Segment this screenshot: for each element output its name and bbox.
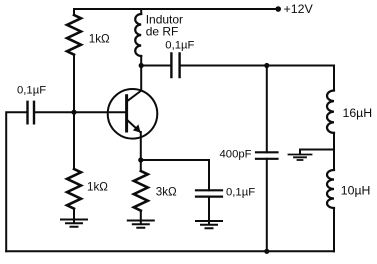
wire bottom rail [6, 250, 334, 252]
svg-text:400pF: 400pF [220, 148, 252, 160]
wire R1 bottom to base junction [73, 55, 75, 113]
capacitor C3 400pF [256, 152, 278, 159]
wire R2 bottom stub [73, 209, 75, 223]
wire 400pF branch lower [266, 159, 268, 252]
transistor Q1 emitter line [127, 120, 141, 133]
svg-text:0,1µF: 0,1µF [226, 186, 255, 198]
wire bypass cap to ground [208, 197, 210, 225]
node collector junction [139, 63, 144, 68]
svg-text:16µH: 16µH [343, 106, 373, 120]
transistor Q1 base bar [125, 96, 128, 131]
node emitter junction [138, 157, 143, 162]
svg-text:1kΩ: 1kΩ [89, 32, 110, 45]
wire emitter node to bypass branch [141, 159, 209, 161]
ground under R2 [61, 220, 87, 227]
ground under C4 [196, 221, 222, 228]
ground mid right [289, 155, 312, 161]
svg-text:1kΩ: 1kΩ [87, 181, 108, 194]
capacitor C2 0,1uF coupling [171, 54, 179, 78]
wire left branch top stub [73, 9, 75, 15]
wire right vertical top segment [333, 66, 335, 91]
capacitor C1 0,1uF input (left plate) [28, 102, 35, 124]
wire emitter vertical [140, 132, 142, 171]
node 400pF bottom junction [264, 249, 269, 254]
svg-text:0,1µF: 0,1µF [165, 40, 194, 52]
node 400pF top junction [264, 63, 269, 68]
svg-text:10µH: 10µH [341, 183, 371, 197]
wire right vertical bottom segment [333, 208, 335, 251]
wire bypass branch vertical [208, 160, 210, 190]
svg-text:de RF: de RF [146, 25, 179, 39]
wire coil bottom to collector [140, 56, 142, 91]
node +12V terminal dot [275, 6, 281, 12]
wire between coils [333, 133, 335, 170]
wire junction to coupling cap [141, 65, 171, 67]
resistor R2 1k (lower left) [67, 169, 81, 209]
capacitor C4 0,1uF bypass [196, 190, 222, 196]
wire C1 to transistor base [34, 111, 126, 113]
inductor L1 RF choke [135, 14, 141, 56]
inductor L2 16uH [327, 91, 334, 133]
transistor Q1 collector line [127, 91, 142, 102]
wire coil tap to ground [300, 150, 334, 154]
node base junction [71, 110, 76, 115]
svg-text:3kΩ: 3kΩ [156, 186, 177, 199]
ground under R3 [128, 221, 154, 228]
svg-text:0,1µF: 0,1µF [17, 84, 46, 96]
wire input left segment and left edge vertical [6, 112, 27, 251]
wire 400pF branch upper [266, 66, 268, 153]
transistor Q1 circle [108, 89, 158, 139]
wire coupling cap to right vertical [180, 65, 334, 67]
inductor L3 10uH [327, 170, 334, 208]
resistor R1 1k (upper left) [67, 15, 81, 55]
resistor R3 3k [134, 171, 148, 211]
svg-text:+12V: +12V [284, 2, 314, 16]
transistor Q1 emitter arrowhead [133, 124, 141, 132]
wire top supply rail [74, 8, 277, 10]
wire R3 bottom stub [140, 211, 142, 224]
wire base junction down to R2 [73, 112, 75, 169]
wire collector vertical above coil [140, 9, 142, 14]
